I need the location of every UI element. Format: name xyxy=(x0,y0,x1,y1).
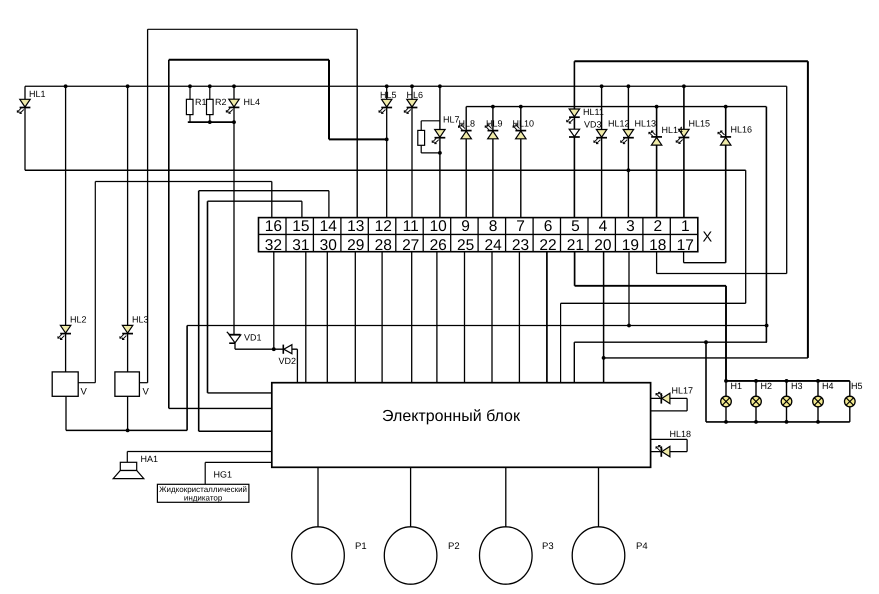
svg-text:20: 20 xyxy=(594,237,612,254)
resistor (HL7 branch) xyxy=(418,130,425,145)
svg-text:5: 5 xyxy=(571,218,580,235)
wire lamps return vertical x706 xyxy=(705,342,707,422)
LED HL14 xyxy=(651,137,661,145)
svg-text:19: 19 xyxy=(622,237,639,254)
svg-text:X: X xyxy=(703,230,713,246)
svg-text:6: 6 xyxy=(544,218,553,235)
wire HL7 resistor bottom stub xyxy=(421,152,440,154)
wire x198 to block xyxy=(199,430,272,432)
svg-text:H4: H4 xyxy=(822,381,834,391)
svg-text:VD3: VD3 xyxy=(584,120,602,130)
wire pin24 to block xyxy=(491,252,493,383)
wire pin26 to block xyxy=(436,252,438,383)
wire lamps top rail xyxy=(726,380,850,382)
wire pin20 to block xyxy=(603,252,605,383)
speaker HA1 xyxy=(120,462,136,470)
svg-text:HL8: HL8 xyxy=(459,119,476,129)
wire HL1 line y170 xyxy=(25,169,746,171)
LED HL12 xyxy=(596,130,606,138)
lamp H4 xyxy=(813,396,824,407)
wire H2 top stem xyxy=(755,381,757,397)
wire HL17 top xyxy=(651,397,688,399)
wire to pin16 xyxy=(95,181,271,183)
svg-text:2: 2 xyxy=(653,218,662,235)
svg-text:24: 24 xyxy=(484,237,502,254)
svg-text:HL5: HL5 xyxy=(380,90,397,100)
LED HL15 xyxy=(679,129,689,137)
wire main bus y86 xyxy=(25,85,787,87)
svg-text:16: 16 xyxy=(265,218,282,235)
LED HL4 xyxy=(229,99,239,107)
svg-text:4: 4 xyxy=(599,218,608,235)
svg-text:13: 13 xyxy=(347,218,364,235)
svg-text:P4: P4 xyxy=(636,541,648,552)
wire pin23 to block xyxy=(518,252,520,383)
wire R1 R2 HL4 tie xyxy=(188,121,234,123)
wire HL16 vertical xyxy=(725,107,727,263)
wire pin25 to block xyxy=(464,252,466,383)
wire HL13 vertical to pin3 xyxy=(627,86,629,217)
wire HL6 vertical to pin11 xyxy=(411,86,413,217)
voltmeter P (HL2 branch) xyxy=(52,372,78,396)
LED HL2 xyxy=(60,325,70,333)
diode VD3 xyxy=(569,129,579,136)
wire VD2 to block xyxy=(296,349,298,383)
svg-text:HL15: HL15 xyxy=(689,119,711,129)
wire HL9 vertical xyxy=(492,107,494,217)
svg-text:7: 7 xyxy=(516,218,525,235)
svg-text:28: 28 xyxy=(375,237,392,254)
wire HL2 voltmeter right terminal xyxy=(78,382,95,384)
svg-text:HL10: HL10 xyxy=(513,119,535,129)
wire HL4-VD1 vertical xyxy=(233,86,235,334)
wire HL3 voltmeter right terminal xyxy=(139,382,147,384)
wire cathode rail y106 xyxy=(466,106,766,108)
svg-text:P3: P3 xyxy=(542,541,554,552)
wire HL14 vertical to pin2 xyxy=(656,107,658,217)
svg-text:HL9: HL9 xyxy=(486,119,503,129)
lamp H2 xyxy=(751,396,762,407)
wire HL18 top xyxy=(651,438,688,440)
svg-text:18: 18 xyxy=(649,237,666,254)
svg-text:22: 22 xyxy=(539,237,556,254)
wire to pin14 xyxy=(199,190,329,192)
svg-text:HG1: HG1 xyxy=(214,470,233,480)
wire pin14 stem xyxy=(328,191,330,217)
LED HL9 xyxy=(488,131,498,139)
svg-text:HL6: HL6 xyxy=(407,90,424,100)
wire loop right vertical x808 xyxy=(807,61,809,358)
wire HL7 resistor bottom lead xyxy=(420,145,422,153)
svg-text:HL7: HL7 xyxy=(443,115,460,125)
LED HL10 xyxy=(516,131,526,139)
wire HL12 vertical to pin4 xyxy=(601,86,603,217)
svg-text:HL17: HL17 xyxy=(672,386,694,396)
wire pin31 to block xyxy=(305,252,307,383)
svg-text:HL13: HL13 xyxy=(635,119,657,129)
LED HL3 xyxy=(122,325,132,333)
wire pin17 stem xyxy=(683,252,685,263)
svg-text:14: 14 xyxy=(320,218,338,235)
gauge P1 xyxy=(292,527,345,584)
wire H3 bottom stem xyxy=(786,407,788,422)
wire H4 top stem xyxy=(817,381,819,397)
svg-text:23: 23 xyxy=(512,237,529,254)
wire HL3 vertical xyxy=(127,86,129,372)
wire H5 top stem xyxy=(849,381,851,397)
LED HL5 xyxy=(382,99,392,107)
svg-text:H3: H3 xyxy=(791,381,803,391)
wire HL1 net to block xyxy=(561,302,746,304)
wire pin21 to lamps feed xyxy=(575,285,726,287)
wire pin30 to block xyxy=(326,252,328,383)
diode VD2 xyxy=(282,345,284,354)
wire ground branch vertical x187 xyxy=(186,326,188,431)
wire HL15 vertical to pin1 xyxy=(683,86,685,217)
wire pin13-loop left vertical xyxy=(147,29,149,382)
wire HA1 stem xyxy=(126,452,128,463)
wire HL8 vertical xyxy=(465,107,467,217)
wire pin29 to block xyxy=(354,252,356,383)
svg-text:HL16: HL16 xyxy=(731,125,753,135)
wire HG1 to block xyxy=(205,461,272,463)
LED HL1 xyxy=(20,99,30,107)
wire bus right vertical xyxy=(786,86,788,273)
wire pin15 stem xyxy=(301,201,303,217)
wire VD1 to VD2 xyxy=(235,348,297,350)
svg-text:HL4: HL4 xyxy=(244,97,261,107)
svg-text:H5: H5 xyxy=(851,381,863,391)
resistor R2 xyxy=(207,99,214,114)
svg-text:1: 1 xyxy=(681,218,690,235)
wire pin22 to block xyxy=(546,252,548,383)
LED HL11 xyxy=(569,109,579,117)
wire HL2 voltmeter loop vertical xyxy=(94,182,96,383)
gauge P3 xyxy=(480,527,533,584)
svg-text:12: 12 xyxy=(375,218,392,235)
wire H2 bottom stem xyxy=(755,407,757,422)
wire R1 top xyxy=(189,86,191,99)
lamp H3 xyxy=(781,396,792,407)
LED HL6 xyxy=(407,99,417,107)
svg-text:VD2: VD2 xyxy=(279,356,297,366)
wire R1 bottom xyxy=(189,115,191,123)
svg-text:H1: H1 xyxy=(731,381,743,391)
svg-text:V: V xyxy=(143,387,150,398)
wire HL18 bottom xyxy=(651,451,688,453)
svg-text:V: V xyxy=(81,387,88,398)
wire H1 top stem xyxy=(725,381,727,397)
LED HL17 xyxy=(660,393,662,403)
wire P2 stem xyxy=(410,467,412,527)
wire HL18 right xyxy=(686,439,688,451)
wire HL11 vertical to pin5 xyxy=(573,61,575,217)
wire H3 top stem xyxy=(786,381,788,397)
svg-text:3: 3 xyxy=(626,218,635,235)
wire R2 bottom xyxy=(209,115,211,123)
gauge P4 xyxy=(572,527,625,584)
wire HL7 resistor top stub xyxy=(421,120,440,122)
voltmeter P (HL3 branch) xyxy=(115,372,139,396)
lamp H1 xyxy=(721,396,732,407)
svg-text:H2: H2 xyxy=(761,381,773,391)
wire HG1 stem xyxy=(204,462,206,484)
wire x207 to block xyxy=(208,392,272,394)
wire loop HL11-pin20 top xyxy=(574,60,808,62)
svg-text:HL11: HL11 xyxy=(583,107,604,117)
svg-text:HL14: HL14 xyxy=(662,125,684,135)
svg-text:Электронный блок: Электронный блок xyxy=(382,408,521,425)
svg-text:25: 25 xyxy=(457,237,474,254)
svg-text:HL18: HL18 xyxy=(670,429,692,439)
wire HL2 voltmeter bottom xyxy=(65,396,67,430)
LED HL18 xyxy=(660,446,662,456)
wire H4 bottom stem xyxy=(817,407,819,422)
svg-text:21: 21 xyxy=(567,237,584,254)
wire HL7 resistor top lead xyxy=(420,121,422,131)
wire ground line y342 xyxy=(574,341,767,343)
wire pin15 branch vertical x207 xyxy=(207,201,209,393)
wire H5 bottom stem xyxy=(849,407,851,422)
wire pin27 to block xyxy=(411,252,413,383)
wire loop y60 xyxy=(169,59,329,61)
wire HL5 vertical to pin12 xyxy=(386,86,388,217)
svg-text:8: 8 xyxy=(489,218,498,235)
svg-text:HL12: HL12 xyxy=(608,119,630,129)
wire pin18 stem xyxy=(656,252,658,274)
wire pin18 to bus corner xyxy=(657,273,787,275)
svg-text:29: 29 xyxy=(347,237,364,254)
wire R2 top xyxy=(209,86,211,99)
svg-text:26: 26 xyxy=(430,237,447,254)
wire x168 to block xyxy=(169,407,272,409)
svg-text:9: 9 xyxy=(461,218,470,235)
LED HL13 xyxy=(623,130,633,138)
junction dots xyxy=(64,84,68,88)
svg-text:HL1: HL1 xyxy=(29,89,46,99)
wire HL7 vertical to pin10 xyxy=(439,86,441,217)
svg-text:17: 17 xyxy=(677,237,694,254)
svg-text:R1: R1 xyxy=(195,97,207,107)
wire HA1 to block xyxy=(127,451,271,453)
wire y60-loop right vertical xyxy=(328,60,330,140)
wire P4 stem xyxy=(598,467,600,527)
svg-text:10: 10 xyxy=(430,218,448,235)
LED HL7 xyxy=(435,130,445,138)
wire to pin15 xyxy=(208,200,302,202)
svg-text:HL3: HL3 xyxy=(132,315,149,325)
svg-text:30: 30 xyxy=(320,237,338,254)
gauge P2 xyxy=(384,527,437,584)
wire VD1 bottom xyxy=(234,343,236,349)
wire HL2 vertical xyxy=(65,86,67,372)
wire pin17 to HL16 xyxy=(684,262,726,264)
wire HL17 bottom xyxy=(651,410,688,412)
wire P3 stem xyxy=(505,467,507,527)
diode VD1 (zener) xyxy=(230,334,241,336)
wire pin20 loop y358 xyxy=(604,357,808,359)
wire pin21 stem xyxy=(574,252,576,286)
svg-text:P1: P1 xyxy=(355,541,367,552)
wire HL1 net drop to block xyxy=(560,303,562,382)
wire P1 stem xyxy=(317,467,319,527)
LED HL16 xyxy=(721,137,731,145)
wire pin32 to VD wire xyxy=(273,252,275,349)
svg-text:11: 11 xyxy=(403,218,419,235)
wire HL1 vertical xyxy=(24,86,26,170)
resistor R1 xyxy=(186,99,193,114)
wire pin16 stem xyxy=(271,182,273,218)
wire HL1 net right vertical xyxy=(745,170,747,303)
wire pin14 branch vertical x198 xyxy=(198,191,200,432)
svg-text:P2: P2 xyxy=(448,541,460,552)
wire lamps bottom rail xyxy=(706,421,850,423)
electronic block U1 xyxy=(272,383,651,468)
svg-text:32: 32 xyxy=(265,237,282,254)
svg-text:31: 31 xyxy=(292,237,309,254)
svg-text:15: 15 xyxy=(292,218,309,235)
wire pin13 vertical xyxy=(356,29,358,217)
svg-text:R2: R2 xyxy=(215,97,227,107)
wire pin19 stem xyxy=(628,252,630,326)
wire ground line y325 xyxy=(187,325,767,327)
svg-text:HA1: HA1 xyxy=(141,454,159,464)
wire HL3 voltmeter bottom xyxy=(127,396,129,430)
LCD indicator HG1 xyxy=(157,484,249,502)
LED HL8 xyxy=(461,131,471,139)
wire pin28 to block xyxy=(381,252,383,383)
wire HL10 vertical xyxy=(520,107,522,217)
svg-text:индикатор: индикатор xyxy=(184,494,223,503)
wire lamps feed vertical x726 xyxy=(725,286,727,381)
wire ground drop to block xyxy=(573,342,575,383)
wire rail net right vertical xyxy=(765,107,767,343)
wire y60-loop left vertical xyxy=(168,60,170,409)
wire H1 bottom stem xyxy=(725,407,727,422)
wire y139 to HL5 xyxy=(329,138,387,140)
svg-text:VD1: VD1 xyxy=(244,333,262,343)
wire HL17 right xyxy=(686,398,688,411)
svg-text:27: 27 xyxy=(402,237,419,254)
connector X xyxy=(259,218,698,252)
wire loop pin13 top xyxy=(148,28,358,30)
svg-text:HL2: HL2 xyxy=(70,315,87,325)
wire ground bus left xyxy=(66,429,187,431)
lamp H5 xyxy=(845,396,856,407)
